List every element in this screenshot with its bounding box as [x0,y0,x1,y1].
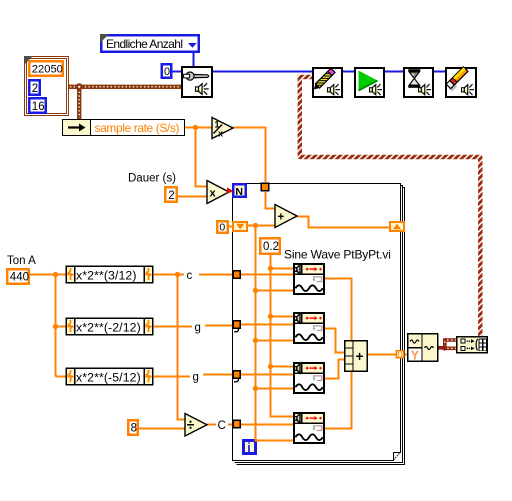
svg-text:16: 16 [32,101,45,113]
svg-text:+: + [278,212,285,224]
svg-text:Dauer (s): Dauer (s) [128,173,176,185]
svg-text:x*2**(3/12): x*2**(3/12) [76,268,137,282]
svg-text:2: 2 [32,83,38,95]
svg-text:0.2: 0.2 [263,241,279,253]
svg-text:x: x [218,129,223,139]
svg-text:x*2**(-5/12): x*2**(-5/12) [76,370,141,384]
svg-text:Sine Wave PtByPt.vi: Sine Wave PtByPt.vi [284,248,391,262]
svg-text:Ton A: Ton A [7,255,36,267]
svg-text:22050: 22050 [32,64,63,76]
svg-text:C: C [218,420,226,432]
svg-text:x: x [210,188,217,200]
svg-text:8: 8 [131,423,137,435]
svg-text:g: g [193,372,199,384]
svg-text:Endliche Anzahl: Endliche Anzahl [106,37,182,51]
svg-text:g: g [195,322,201,334]
svg-text:440: 440 [10,272,29,284]
svg-text:x*2**(-2/12): x*2**(-2/12) [76,320,141,334]
svg-text:N: N [235,186,243,198]
svg-text:i: i [247,441,250,455]
svg-text:c: c [187,270,193,282]
svg-text:+: + [356,349,364,364]
svg-text:Y: Y [411,348,420,362]
svg-text:sample rate (S/s): sample rate (S/s) [95,121,180,135]
svg-text:2: 2 [168,190,174,202]
svg-text:0: 0 [164,66,170,78]
svg-text:0: 0 [219,222,225,234]
